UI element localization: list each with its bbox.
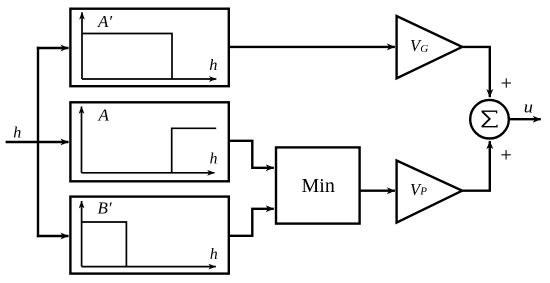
box A membership curve <box>172 128 217 173</box>
box Min <box>276 147 360 223</box>
amplifier V_P <box>397 161 463 223</box>
box A <box>70 102 228 181</box>
svg-text:A: A <box>98 106 110 125</box>
svg-text:u: u <box>524 97 533 116</box>
svg-text:A′: A′ <box>97 12 112 31</box>
svg-text:h: h <box>209 57 217 74</box>
wire V_G to sum <box>462 47 490 97</box>
box A' y-axis <box>81 12 83 79</box>
wire Min to V_P <box>360 189 395 191</box>
label plus top <box>502 78 511 87</box>
wire sum output <box>510 118 541 120</box>
label sigma <box>482 111 498 127</box>
wire branch vertical <box>37 47 39 237</box>
box A' x-axis <box>82 78 216 80</box>
summing junction <box>470 100 509 139</box>
wire box A to Min <box>229 141 274 168</box>
svg-text:Min: Min <box>302 175 335 197</box>
wire branch to box B' <box>37 235 69 237</box>
wire branch to box A' <box>37 47 69 49</box>
box B' membership curve <box>82 222 127 267</box>
svg-text:h: h <box>210 246 218 263</box>
box A y-axis <box>81 107 83 173</box>
box A' <box>70 9 228 87</box>
svg-text:P: P <box>419 186 427 198</box>
svg-text:G: G <box>420 43 428 55</box>
wire box A' to V_G <box>229 46 395 48</box>
wire V_P to sum <box>462 141 490 191</box>
amplifier V_G <box>397 16 463 78</box>
svg-text:h: h <box>13 124 21 141</box>
box A x-axis <box>82 172 215 174</box>
wire h input <box>6 141 69 143</box>
box B' <box>70 197 228 274</box>
box B' y-axis <box>81 201 83 267</box>
svg-text:B′: B′ <box>98 199 112 218</box>
box A' membership curve <box>82 34 172 80</box>
svg-text:h: h <box>210 151 218 168</box>
wire box B' to Min <box>229 209 274 236</box>
box B' x-axis <box>82 266 216 268</box>
label plus bottom <box>501 150 510 159</box>
